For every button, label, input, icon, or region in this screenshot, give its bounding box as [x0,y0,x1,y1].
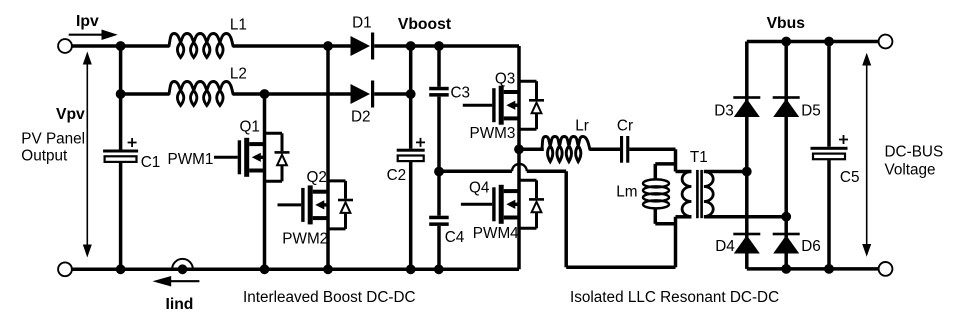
svg-text:D1: D1 [352,14,372,31]
svg-text:T1: T1 [690,149,708,166]
svg-text:Q2: Q2 [307,169,327,186]
svg-text:D4: D4 [715,238,735,255]
svg-text:Cr: Cr [617,118,633,135]
svg-text:L1: L1 [230,17,247,34]
svg-text:D5: D5 [801,103,821,120]
svg-text:D3: D3 [714,103,734,120]
svg-text:C2: C2 [387,167,407,184]
svg-text:Interleaved Boost DC-DC: Interleaved Boost DC-DC [243,289,416,306]
svg-text:C4: C4 [445,229,465,246]
svg-text:Iind: Iind [166,296,194,313]
svg-text:C5: C5 [840,169,860,186]
svg-text:D6: D6 [801,238,821,255]
svg-text:L2: L2 [230,66,247,83]
svg-text:Output: Output [21,147,68,164]
svg-text:D2: D2 [351,108,371,125]
svg-text:Lr: Lr [575,118,589,135]
svg-text:DC-BUS: DC-BUS [885,144,944,161]
svg-text:Isolated LLC Resonant DC-DC: Isolated LLC Resonant DC-DC [570,289,779,306]
svg-text:Q4: Q4 [469,179,490,196]
svg-text:Q1: Q1 [240,119,260,136]
svg-text:C3: C3 [451,84,471,101]
svg-text:Vbus: Vbus [767,15,806,32]
svg-text:Vboost: Vboost [398,16,452,33]
svg-text:PV Panel: PV Panel [21,131,85,148]
svg-text:C1: C1 [141,154,161,171]
svg-text:Vpv: Vpv [56,106,85,123]
svg-text:Q3: Q3 [495,71,515,88]
svg-text:Voltage: Voltage [885,162,936,179]
svg-text:PWM3: PWM3 [470,125,516,142]
svg-text:PWM1: PWM1 [168,151,214,168]
svg-text:PWM4: PWM4 [473,225,519,242]
svg-text:Lm: Lm [616,184,637,201]
svg-text:PWM2: PWM2 [282,231,328,248]
svg-text:Ipv: Ipv [76,13,99,30]
